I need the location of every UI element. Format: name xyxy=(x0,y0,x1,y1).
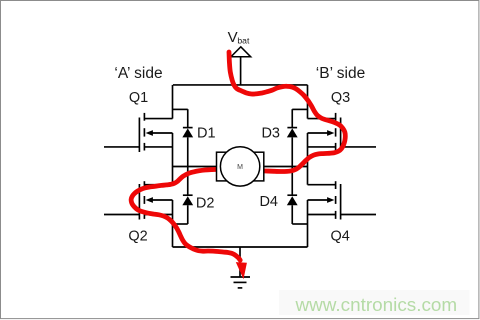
svg-text:D3: D3 xyxy=(261,125,280,141)
svg-text:Q1: Q1 xyxy=(129,90,148,106)
svg-text:Q2: Q2 xyxy=(128,228,147,244)
svg-text:V: V xyxy=(228,29,238,46)
svg-text:M: M xyxy=(237,164,243,171)
svg-text:D2: D2 xyxy=(196,196,215,212)
svg-text:D4: D4 xyxy=(259,194,278,210)
svg-text:bat: bat xyxy=(237,36,250,46)
svg-text:‘A’ side: ‘A’ side xyxy=(114,65,162,82)
svg-text:Q3: Q3 xyxy=(331,90,350,106)
svg-text:‘B’ side: ‘B’ side xyxy=(316,65,365,82)
svg-text:Q4: Q4 xyxy=(331,228,350,244)
svg-text:www.cntronics.com: www.cntronics.com xyxy=(295,295,458,316)
svg-text:D1: D1 xyxy=(197,125,216,141)
